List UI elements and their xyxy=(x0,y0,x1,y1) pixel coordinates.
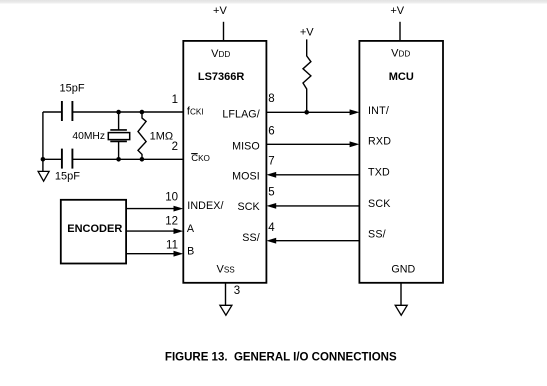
wire left vertical (caps common) xyxy=(42,112,44,171)
wire ENCODER to B (pin 11) with arrow xyxy=(126,251,183,257)
svg-text:GND: GND xyxy=(391,264,415,276)
svg-text:LFLAG/: LFLAG/ xyxy=(222,108,259,120)
resistor R1 1Mohm xyxy=(138,112,146,159)
junction dot resistor bottom xyxy=(140,157,145,162)
svg-text:8: 8 xyxy=(268,93,274,105)
svg-text:15pF: 15pF xyxy=(55,170,80,182)
svg-text:MISO: MISO xyxy=(232,141,260,153)
wire ENCODER to A (pin 12) with arrow xyxy=(126,228,183,234)
wire CKO line (pin 2) xyxy=(43,158,183,160)
svg-text:SS/: SS/ xyxy=(368,229,386,241)
U1 pin label CKO (C overbar) xyxy=(191,153,210,164)
svg-text:5: 5 xyxy=(268,187,274,199)
wire Vss to ground (pin 3) xyxy=(225,283,227,306)
svg-text:1: 1 xyxy=(172,94,178,106)
svg-text:+V: +V xyxy=(390,5,404,17)
svg-text:3: 3 xyxy=(234,285,240,297)
svg-text:ENCODER: ENCODER xyxy=(67,223,122,235)
junction dot left wire bottom xyxy=(41,157,46,162)
svg-text:INDEX/: INDEX/ xyxy=(187,200,223,212)
junction dot resistor top xyxy=(140,110,145,115)
junction dot crystal bottom xyxy=(116,157,121,162)
svg-text:12: 12 xyxy=(165,216,178,228)
svg-text:CKO: CKO xyxy=(191,153,210,164)
svg-text:+V: +V xyxy=(213,5,227,17)
wire SCK to SCK (pin 5) with arrow xyxy=(266,203,359,209)
wire MISO to RXD (pin 6) with arrow xyxy=(266,141,359,147)
junction dot pull-up to LFLAG line xyxy=(304,110,309,115)
wire LFLAG/ to INT/ (pin 8) with arrow xyxy=(266,109,359,115)
IC U2 MCU box xyxy=(359,41,443,283)
ground below U1 xyxy=(220,305,232,315)
svg-text:+V: +V xyxy=(300,27,314,39)
wire SS/ to SS/ (pin 4) with arrow xyxy=(266,238,359,244)
svg-text:4: 4 xyxy=(268,222,275,234)
svg-text:A: A xyxy=(187,223,195,235)
capacitor C1 15pF top xyxy=(62,101,73,121)
svg-text:VDD: VDD xyxy=(211,48,230,60)
wire GND to ground (MCU) xyxy=(400,283,402,306)
wire ENCODER to INDEX/ (pin 10) with arrow xyxy=(126,206,183,212)
resistor R pull-up xyxy=(303,39,311,112)
IC U1 LS7366R box xyxy=(183,41,266,283)
svg-text:10: 10 xyxy=(165,191,178,203)
capacitor C2 15pF bottom xyxy=(62,149,73,169)
svg-text:2: 2 xyxy=(172,141,178,153)
svg-text:SCK: SCK xyxy=(368,198,391,210)
wire fCKI line (pin 1) xyxy=(43,111,183,113)
svg-text:SS/: SS/ xyxy=(242,232,260,244)
svg-text:SCK: SCK xyxy=(238,201,261,213)
wire TXD to MOSI (pin 7) with arrow xyxy=(266,172,359,178)
svg-text:TXD: TXD xyxy=(368,167,390,179)
ground left xyxy=(38,171,49,181)
svg-text:MCU: MCU xyxy=(389,71,414,83)
svg-text:MOSI: MOSI xyxy=(232,171,260,183)
svg-text:VDD: VDD xyxy=(391,48,410,60)
svg-text:1MΩ: 1MΩ xyxy=(150,130,174,142)
svg-text:FIGURE 13. GENERAL I/O CONNEC: FIGURE 13. GENERAL I/O CONNECTIONS xyxy=(165,351,397,363)
svg-text:VSS: VSS xyxy=(217,263,236,275)
svg-text:fCKI: fCKI xyxy=(187,106,204,118)
svg-text:11: 11 xyxy=(166,239,178,251)
svg-text:RXD: RXD xyxy=(368,136,391,148)
ENCODER box xyxy=(61,200,126,264)
svg-text:LS7366R: LS7366R xyxy=(198,71,245,83)
svg-text:INT/: INT/ xyxy=(368,105,389,117)
supply +V above U1 xyxy=(213,5,227,41)
crystal Y1 40MHz xyxy=(108,112,129,159)
svg-text:B: B xyxy=(187,245,194,257)
svg-text:15pF: 15pF xyxy=(60,82,85,94)
svg-text:40MHz: 40MHz xyxy=(72,131,105,142)
ground below MCU xyxy=(395,305,407,315)
svg-text:6: 6 xyxy=(268,126,274,138)
svg-text:7: 7 xyxy=(268,156,274,168)
supply +V above MCU xyxy=(390,5,404,41)
junction dot crystal top xyxy=(116,110,121,115)
top gray band xyxy=(0,0,547,4)
supply +V above pull-up resistor xyxy=(300,27,314,39)
